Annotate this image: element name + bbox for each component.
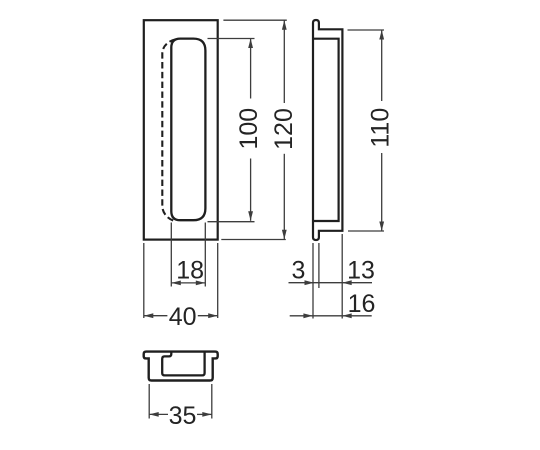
dim 35 extension right [211, 384, 213, 419]
dim 110 arrow up [379, 30, 384, 40]
dim 3 arrow right [305, 280, 315, 285]
dim 18 arrow left [171, 281, 181, 286]
dim 16 arrow left [342, 313, 352, 318]
dim 110 extension bottom [348, 230, 384, 232]
dim 100 extension bottom [208, 221, 255, 223]
svg-text:18: 18 [176, 257, 204, 285]
dim 110 line [381, 30, 383, 101]
svg-text:40: 40 [169, 303, 197, 331]
side view outer profile [313, 20, 342, 240]
dim 40 arrow right [208, 313, 218, 318]
bottom view inner recess [162, 352, 204, 376]
dim 18 extension right [204, 223, 206, 287]
front view hidden dashed edge [162, 39, 175, 221]
svg-text:100: 100 [235, 108, 263, 150]
dim 35 line [149, 413, 168, 415]
dim 100 arrow up [248, 39, 253, 49]
dim 3-13 line [289, 282, 373, 284]
side view inner lines [313, 39, 339, 221]
dim 110 arrow down [379, 222, 384, 232]
dim 35 arrow left [149, 412, 159, 417]
dim 40 extension right [217, 243, 219, 318]
svg-text:13: 13 [347, 257, 375, 285]
dim 100 line [250, 39, 252, 99]
dim 120 extension top [223, 19, 286, 21]
dim 3 extension B [318, 243, 320, 288]
dim 100 extension top [208, 38, 255, 40]
dim 120 line [283, 20, 285, 103]
dim 16 arrow right [303, 313, 313, 318]
dim 13 arrow left [342, 280, 352, 285]
dim 13 extension C [341, 234, 343, 319]
dim 120 extension bottom [221, 239, 285, 241]
dim 18 line [171, 282, 205, 284]
dim 18 arrow right [196, 281, 206, 286]
bottom view outer profile [144, 352, 218, 381]
dim 40 extension left [143, 243, 145, 318]
front view outer plate rect [144, 20, 218, 239]
svg-text:35: 35 [169, 402, 197, 430]
dim 16 line [290, 315, 372, 317]
dim 40 arrow left [144, 313, 154, 318]
dim 3 extension A [312, 243, 314, 319]
svg-text:120: 120 [270, 108, 298, 150]
dim 35 arrow right [202, 412, 212, 417]
svg-text:3: 3 [292, 257, 306, 285]
dim 120 arrow down [282, 230, 287, 240]
dim 18 extension left [170, 223, 172, 287]
svg-text:110: 110 [367, 108, 395, 148]
svg-text:16: 16 [348, 290, 376, 318]
dim 35 extension left [148, 384, 150, 419]
dim 100 arrow down [248, 211, 253, 221]
front view recess rounded rect [171, 39, 205, 221]
dim 40 line [144, 315, 168, 317]
dim 120 arrow up [282, 20, 287, 30]
dim 110 extension top [348, 29, 385, 31]
